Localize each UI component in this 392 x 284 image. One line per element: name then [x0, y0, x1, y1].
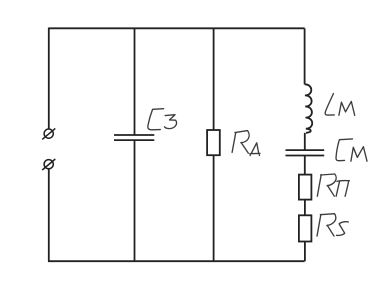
- wire right branch upper: [304, 28, 306, 84]
- resistor Rs body: [299, 215, 312, 241]
- wire between Lm and Cm: [304, 133, 306, 150]
- label Cm (Cм): [336, 139, 367, 161]
- label Rd (Rд): [232, 131, 260, 156]
- label Lm (Lм): [325, 94, 355, 116]
- wire left branch lower: [48, 169, 50, 261]
- label Rs: [317, 214, 348, 236]
- resistor Rd body: [207, 130, 220, 155]
- terminal X1 (top input): [42, 128, 55, 139]
- wire C3 branch lower: [134, 140, 136, 261]
- wire C3 branch upper: [134, 28, 136, 135]
- wire between Cm and Rp: [304, 156, 306, 175]
- label Rp (Rп): [317, 174, 349, 196]
- wire left branch upper: [48, 28, 50, 130]
- wire top rail: [49, 27, 305, 29]
- capacitor C3 plates: [114, 135, 154, 140]
- wire between Rp and Rs: [304, 200, 306, 216]
- wire Rd branch lower: [213, 155, 215, 261]
- resistor Rp body: [299, 175, 312, 200]
- wire Rd branch upper: [213, 28, 215, 130]
- capacitor Cm plates: [286, 150, 325, 155]
- wire right branch lower: [304, 242, 306, 262]
- label C3 (Cз): [148, 109, 177, 130]
- wire bottom rail: [48, 260, 305, 262]
- inductor Lm coil: [305, 84, 313, 133]
- terminal X2 (bottom input): [42, 159, 55, 170]
